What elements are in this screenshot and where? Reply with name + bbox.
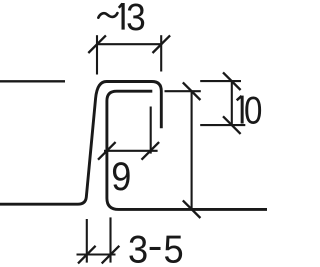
dim 3-5 right extension line <box>109 217 111 262</box>
svg-text:3: 3 <box>128 227 148 267</box>
dim ~13 right tick <box>153 35 171 53</box>
dim 3-5 right tick <box>102 246 120 264</box>
dim 3-5 left extension line <box>86 219 88 263</box>
seam height bottom tick <box>183 200 201 218</box>
label ~13 digit 1 <box>119 3 123 30</box>
dim ~13 right extension line <box>160 35 162 71</box>
dim 9 right extension line <box>150 107 152 154</box>
dim ~13 dimension line <box>97 43 161 45</box>
seam height top tick <box>183 82 201 100</box>
dim 10 top extension line <box>200 80 241 82</box>
seam height top extension line <box>165 90 201 92</box>
svg-text:0: 0 <box>244 88 262 132</box>
dim 3-5 dimension line <box>77 253 116 255</box>
dim 3-5 left tick <box>78 246 96 264</box>
dim 9 dimension line <box>104 150 158 152</box>
adjacent seam-top reference line (left) <box>0 80 65 82</box>
svg-text:-: - <box>148 224 163 267</box>
dim 10 top tick <box>223 72 241 90</box>
dim ~13 left extension line <box>96 35 98 74</box>
dim 10 bottom tick <box>223 116 241 134</box>
dim 9 left tick <box>98 142 116 160</box>
seam height dimension line <box>191 91 193 209</box>
label ~13 tilde <box>98 13 117 18</box>
svg-text:5: 5 <box>164 227 184 267</box>
inner sheet profile (right panel upstand) <box>107 91 267 209</box>
svg-text:9: 9 <box>111 154 131 199</box>
dim ~13 left tick <box>88 35 106 53</box>
dim 10 dimension line <box>231 81 233 125</box>
dim 10 bottom extension line <box>200 124 245 126</box>
outer sheet profile (left panel folded over seam) <box>0 82 161 205</box>
svg-text:3: 3 <box>126 0 146 38</box>
dim 9 right tick <box>142 142 160 160</box>
label 10 digit 1 <box>237 96 242 124</box>
